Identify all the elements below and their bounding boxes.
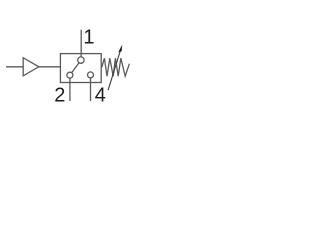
wire port 1 — [80, 30, 82, 57]
valve body box — [60, 54, 101, 83]
wire triangle to box — [39, 66, 61, 68]
svg-text:1: 1 — [83, 26, 94, 48]
wire pilot input — [6, 66, 23, 68]
wire port 2 — [69, 78, 71, 101]
svg-text:2: 2 — [54, 84, 65, 106]
pilot triangle — [23, 58, 39, 76]
contact circle port 2 — [67, 72, 73, 78]
contact circle port 4 — [88, 72, 94, 78]
wire port 4 — [90, 78, 92, 101]
contact circle common — [78, 57, 84, 63]
svg-text:4: 4 — [95, 84, 106, 106]
adjustment arrowhead — [118, 45, 122, 53]
adjustment arrow shaft — [108, 50, 121, 91]
switch arm — [70, 60, 81, 75]
adjustable spring — [102, 58, 130, 76]
